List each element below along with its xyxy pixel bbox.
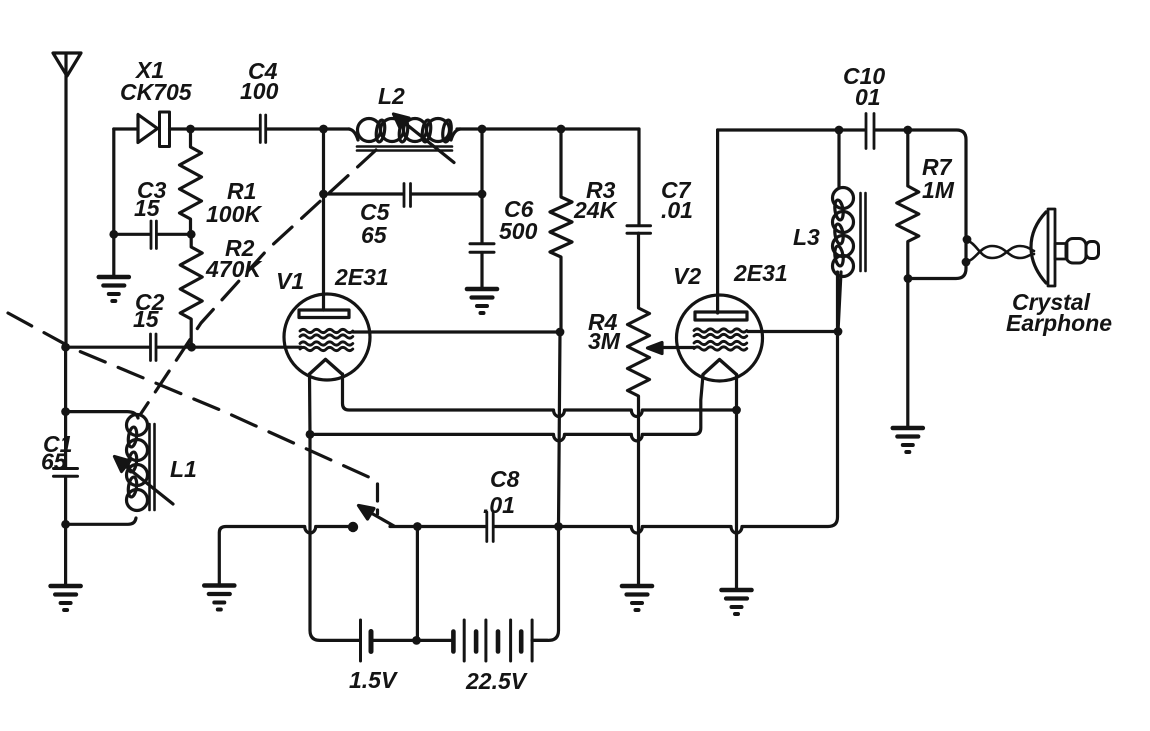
svg-text:100: 100 [240,78,279,104]
svg-text:V2: V2 [673,263,701,289]
svg-text:65: 65 [41,449,68,475]
svg-text:15: 15 [133,306,160,332]
svg-text:100K: 100K [206,201,262,227]
svg-text:22.5V: 22.5V [465,668,528,694]
svg-text:15: 15 [134,195,161,221]
svg-text:1M: 1M [922,177,955,203]
svg-text:L3: L3 [793,224,820,250]
svg-text:3M: 3M [588,328,621,354]
svg-text:1.5V: 1.5V [349,667,398,693]
svg-text:L1: L1 [170,456,197,482]
svg-text:470K: 470K [205,256,262,282]
svg-text:2E31: 2E31 [733,260,788,286]
svg-text:.01: .01 [661,197,693,223]
svg-text:CK705: CK705 [120,79,193,105]
svg-text:24K: 24K [573,197,618,223]
svg-text:Earphone: Earphone [1006,310,1112,336]
svg-text:L2: L2 [378,83,405,109]
svg-text:.01: .01 [483,492,515,518]
svg-text:V1: V1 [276,268,304,294]
svg-text:65: 65 [361,222,388,248]
svg-text:01: 01 [855,84,881,110]
svg-text:500: 500 [499,218,538,244]
svg-text:C8: C8 [490,466,520,492]
svg-text:2E31: 2E31 [334,264,389,290]
